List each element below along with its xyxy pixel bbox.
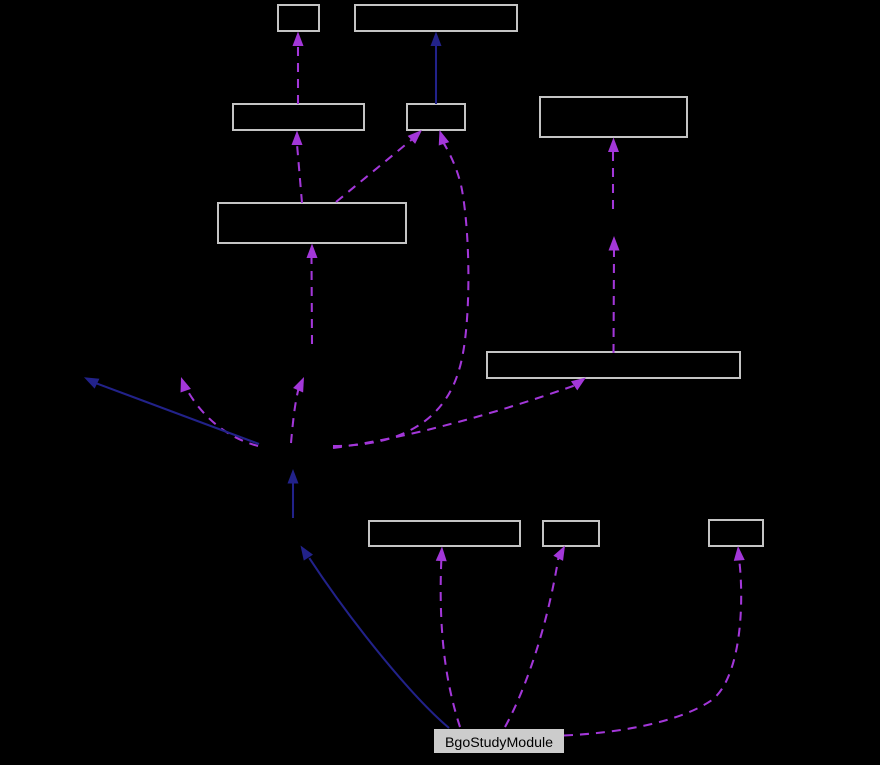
svg-text:BgoStudyModule: BgoStudyModule bbox=[445, 735, 553, 751]
